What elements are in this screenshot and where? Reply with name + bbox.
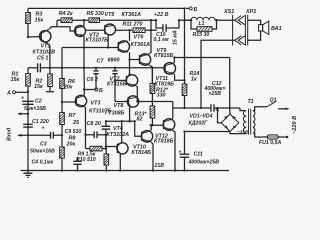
capacitor C9 symbol xyxy=(86,131,106,138)
wire primary top xyxy=(253,107,267,111)
wire VT3 base xyxy=(62,101,76,103)
svg-text:С11: С11 xyxy=(194,152,203,158)
svg-text:КТ3102А: КТ3102А xyxy=(107,132,130,138)
capacitor C5 xyxy=(38,63,41,72)
resistor R3 xyxy=(26,8,44,37)
resistor R15 xyxy=(191,20,217,38)
resistor R4 xyxy=(59,11,73,23)
svg-text:~220 В: ~220 В xyxy=(292,116,298,134)
speaker BA1 xyxy=(259,21,282,34)
svg-text:С5 1: С5 1 xyxy=(37,55,48,61)
wire VT5 emitter down xyxy=(107,35,109,48)
svg-text:КТ3107Б: КТ3107Б xyxy=(86,38,109,44)
capacitor C4 xyxy=(32,158,82,171)
wire bridge plus stub xyxy=(229,108,231,114)
svg-text:КТ818Б: КТ818Б xyxy=(154,139,174,145)
svg-text:С3: С3 xyxy=(40,142,47,148)
resistor R11 xyxy=(123,22,146,33)
ground symbol xyxy=(24,171,33,178)
wire VT4 emitter xyxy=(119,154,121,171)
wire R4 feed drop xyxy=(56,20,58,27)
svg-text:КТ361А: КТ361А xyxy=(131,42,151,48)
wire bridge AC col xyxy=(218,108,222,123)
svg-text:50мк×16В: 50мк×16В xyxy=(30,149,55,155)
capacitor C7 xyxy=(97,58,120,102)
svg-text:VT1: VT1 xyxy=(41,43,51,49)
svg-text:С1 220: С1 220 xyxy=(32,119,49,125)
svg-text:21В: 21В xyxy=(154,163,165,169)
svg-text:ХР1: ХР1 xyxy=(245,9,256,15)
transistor VT8 xyxy=(105,96,139,117)
svg-text:R10 510: R10 510 xyxy=(76,157,96,163)
wire PSU plus row xyxy=(173,107,240,109)
svg-text:R4 2к: R4 2к xyxy=(59,11,73,17)
svg-text:VT3: VT3 xyxy=(91,101,101,107)
transistor VT9 xyxy=(139,48,173,65)
svg-text:С7: С7 xyxy=(97,59,105,65)
svg-text:КД202Г: КД202Г xyxy=(189,121,209,127)
transistor VT1 xyxy=(33,29,56,61)
wire VT2 to VT5 base xyxy=(86,29,105,31)
wire mid signal bus xyxy=(28,67,165,69)
resistor R1 xyxy=(11,68,31,92)
svg-text:20к: 20к xyxy=(66,142,76,148)
wire VT6-VT7 link xyxy=(129,30,131,75)
svg-text:15к: 15к xyxy=(35,17,44,23)
node A test point xyxy=(6,91,28,97)
capacitor C10 xyxy=(154,20,180,43)
label 21V xyxy=(154,163,165,169)
switch Q1 xyxy=(267,98,290,111)
capacitor C8 xyxy=(87,121,111,148)
input arrow 1 xyxy=(17,112,28,115)
wire secondary top link xyxy=(240,108,246,111)
svg-text:VT6: VT6 xyxy=(134,35,145,41)
wire VT1 emitter col xyxy=(48,45,51,68)
svg-text:5мк×16В: 5мк×16В xyxy=(24,106,46,112)
wire VT10 emitter xyxy=(151,142,153,170)
transformer T1 xyxy=(243,99,255,134)
svg-text:×25В: ×25В xyxy=(209,91,222,97)
wire VT8 collector row xyxy=(139,101,173,103)
wire VT10 collector xyxy=(150,125,152,130)
svg-text:С4 0,1мк: С4 0,1мк xyxy=(32,160,54,166)
svg-text:4000мк×25В: 4000мк×25В xyxy=(188,160,220,166)
transistor VT6 xyxy=(118,35,150,53)
wire VT5/VT2 emitter bus xyxy=(62,47,118,49)
svg-text:XS1: XS1 xyxy=(223,9,234,15)
capacitor C1 xyxy=(23,119,49,127)
transistor VT4 xyxy=(107,126,130,154)
inductor L1 xyxy=(185,17,217,27)
wire VT1 collector col xyxy=(49,27,50,29)
wire output column xyxy=(184,8,186,80)
svg-text:1к: 1к xyxy=(191,77,197,83)
svg-text:+22 В: +22 В xyxy=(154,12,169,18)
wire output to connector xyxy=(217,19,235,21)
resistor R9 xyxy=(76,146,106,163)
svg-text:R11 270: R11 270 xyxy=(123,22,143,28)
wire VT4 collector xyxy=(121,121,123,143)
resistor R12 xyxy=(150,84,169,107)
transistor VT2 xyxy=(75,26,109,44)
svg-text:КТ361А: КТ361А xyxy=(122,12,142,18)
svg-text:Б: Б xyxy=(194,7,198,13)
transistor VT11 xyxy=(155,63,176,88)
label +22V xyxy=(154,12,169,18)
svg-text:Q1: Q1 xyxy=(270,98,277,104)
svg-text:ВА1: ВА1 xyxy=(271,26,282,32)
wire VT11 collector up xyxy=(173,58,175,63)
label 15mA current xyxy=(173,30,179,45)
resistor R7 xyxy=(60,102,80,135)
wire VT3 collector col xyxy=(83,48,85,96)
transistor VT3 xyxy=(75,95,111,114)
wire VT12 base row xyxy=(150,124,164,126)
capacitor C3 xyxy=(28,125,62,154)
capacitor C2 xyxy=(21,95,46,112)
wire VT9 collector col xyxy=(149,20,151,54)
wire supply feed row xyxy=(174,58,229,109)
svg-text:R5 330: R5 330 xyxy=(87,11,104,17)
svg-text:ГТ308Б: ГТ308Б xyxy=(105,111,125,117)
svg-text:А: А xyxy=(6,91,11,97)
transistor VT10 xyxy=(132,131,153,157)
svg-text:С6 2: С6 2 xyxy=(87,77,98,83)
label input xyxy=(7,127,13,141)
input arrow 2 xyxy=(17,134,28,137)
svg-text:330: 330 xyxy=(157,93,166,99)
wire VT9 emitter R12 col dots xyxy=(151,68,153,84)
svg-text:15к: 15к xyxy=(34,84,43,90)
wire VT11 emitter out xyxy=(174,74,184,80)
wire R9 node col xyxy=(105,135,107,149)
wire VT2 emitter up xyxy=(83,20,85,26)
resistor R8 xyxy=(60,135,76,170)
svg-text:20к: 20к xyxy=(63,84,73,90)
capacitor C6 xyxy=(87,68,99,90)
svg-text:82: 82 xyxy=(137,117,143,123)
svg-text:FU1 0,5А: FU1 0,5А xyxy=(259,140,281,146)
wire bridge minus rail xyxy=(185,129,250,135)
transistor VT5 xyxy=(105,12,142,35)
svg-text:25: 25 xyxy=(72,120,80,126)
wire VT12 collector up xyxy=(172,102,174,120)
wire feedback row xyxy=(106,120,135,122)
node B output test point xyxy=(186,7,198,13)
fuse FU1 xyxy=(259,135,288,146)
svg-text:КТ315Б: КТ315Б xyxy=(107,82,127,88)
transistor VT7 xyxy=(107,75,138,88)
label C9 xyxy=(65,129,82,135)
svg-text:VT8: VT8 xyxy=(114,103,124,109)
transistor VT12 xyxy=(154,119,175,145)
svg-text:С9 510: С9 510 xyxy=(65,129,82,135)
wire VT8 emitter down xyxy=(129,106,132,121)
wire top output rail xyxy=(28,7,185,9)
wire speaker return col xyxy=(201,40,235,108)
wire input column xyxy=(27,92,29,171)
wire VT8 base xyxy=(115,101,128,103)
svg-text:6800: 6800 xyxy=(108,58,120,64)
svg-text:КТ814Б: КТ814Б xyxy=(132,150,152,156)
wire speaker top xyxy=(248,20,261,24)
svg-text:+: + xyxy=(179,149,182,155)
svg-text:VT5: VT5 xyxy=(105,12,116,18)
connector XS1 xyxy=(223,9,245,46)
svg-text:Вход: Вход xyxy=(7,127,13,141)
wire C11 column xyxy=(184,132,186,171)
wire VT1 collector to VT2 base xyxy=(51,27,76,31)
wire R11 row xyxy=(116,29,157,31)
node B mid tap xyxy=(84,88,103,94)
wire VT10 base xyxy=(135,121,142,136)
svg-text:R15 30: R15 30 xyxy=(193,32,210,38)
svg-text:+: + xyxy=(42,125,45,131)
wire VT7 emitter down xyxy=(136,86,137,102)
connector XP1 xyxy=(245,9,256,46)
wire speaker bottom xyxy=(248,31,261,40)
svg-text:15 мА: 15 мА xyxy=(173,30,179,45)
diode bridge VD1-VD4 xyxy=(189,108,239,131)
capacitor C12 xyxy=(204,81,226,112)
wire VT3 emitter col xyxy=(84,107,86,149)
svg-text:С2: С2 xyxy=(35,99,42,105)
wire VT4 base xyxy=(106,146,118,148)
resistor R6 xyxy=(60,68,76,102)
svg-text:Т1: Т1 xyxy=(248,99,254,105)
capacitor C11 xyxy=(179,149,220,165)
wire VT9 emitter to R12 xyxy=(149,65,152,83)
wire VT12 emitter down xyxy=(173,130,175,170)
svg-text:С8 20: С8 20 xyxy=(87,121,101,127)
svg-text:L1: L1 xyxy=(199,21,205,27)
wire +22V supply rail segment xyxy=(57,19,191,21)
wire R6 column top xyxy=(61,48,63,68)
wire ground rail xyxy=(21,170,230,172)
svg-text:15к: 15к xyxy=(11,77,20,83)
svg-text:КТ815Б: КТ815Б xyxy=(154,53,174,59)
resistor R5 xyxy=(87,11,104,23)
label 220V mains xyxy=(292,116,298,134)
wire VT1 base xyxy=(28,36,41,38)
svg-text:0,1 мк: 0,1 мк xyxy=(154,37,169,43)
svg-text:VD1–VD4: VD1–VD4 xyxy=(190,114,213,120)
resistor R13 xyxy=(135,106,155,125)
resistor R14 xyxy=(182,71,199,108)
wire VT2 collector down xyxy=(83,36,85,48)
svg-text:Б: Б xyxy=(99,88,103,94)
resistor R10 xyxy=(104,149,109,171)
svg-text:R7: R7 xyxy=(69,113,77,119)
wire VT7 base xyxy=(115,79,126,81)
wire primary bottom xyxy=(253,133,267,137)
svg-text:+: + xyxy=(21,95,24,101)
resistor R2 xyxy=(34,68,54,92)
wire VT9 base tap xyxy=(130,59,140,61)
